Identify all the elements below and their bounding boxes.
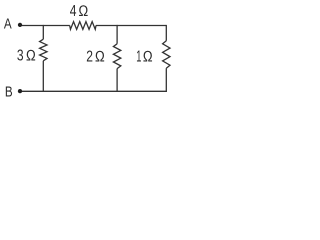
wire: 2-ohm branch top lead (from top wire down)	[116, 25, 118, 44]
svg-text:Ω: Ω	[143, 48, 153, 65]
svg-text:2: 2	[86, 47, 93, 65]
svg-text:A: A	[4, 15, 12, 32]
wire: right side bottom lead of 1-ohm (down to bottom-right corner)	[165, 68, 167, 92]
wire: 3-ohm branch bottom lead (down to bottom wire)	[42, 61, 44, 92]
svg-text:3: 3	[17, 46, 24, 64]
wire: 4-ohm resistor to top-right corner (top wire right segment, passing 2-ohm junction)	[96, 25, 166, 27]
svg-text:Ω: Ω	[78, 3, 88, 20]
node A terminal dot	[18, 23, 22, 27]
node B terminal dot	[18, 89, 22, 93]
resistor R4 1-ohm (vertical zigzag)	[163, 41, 170, 68]
svg-text:Ω: Ω	[26, 48, 36, 65]
resistor R1 4-ohm (horizontal zigzag)	[70, 22, 96, 30]
wire: 2-ohm branch bottom lead (down to bottom wire)	[116, 69, 118, 92]
resistor R2 3-ohm (vertical zigzag)	[40, 39, 47, 61]
svg-text:Ω: Ω	[95, 49, 105, 66]
svg-text:B: B	[5, 83, 13, 100]
resistor R3 2-ohm (vertical zigzag)	[113, 44, 120, 69]
wire: right side top lead of 1-ohm (from top-right corner down)	[165, 25, 167, 41]
wire: 3-ohm branch top lead (from top wire down)	[42, 25, 44, 39]
svg-text:1: 1	[136, 47, 141, 65]
wire: bottom wire from node B to bottom-right corner	[20, 90, 167, 92]
svg-text:4: 4	[70, 2, 77, 20]
wire: node A to 4-ohm resistor (top wire left segment)	[20, 25, 70, 27]
